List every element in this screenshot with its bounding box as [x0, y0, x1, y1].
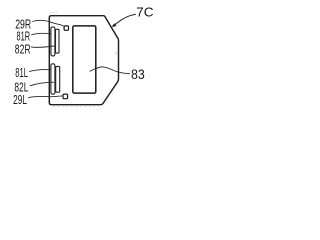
sound hole 29L (small square) [63, 94, 68, 99]
leader line 29R [32, 20, 63, 26]
svg-text:7C: 7C [136, 5, 153, 20]
scan artifact dotted line above body [50, 12, 59, 14]
connector 81R/82R back plate [56, 29, 60, 53]
svg-text:83: 83 [131, 67, 145, 82]
svg-text:29L: 29L [13, 92, 27, 107]
svg-text:81L: 81L [15, 65, 28, 80]
scan artifact speck [115, 53, 116, 54]
connector 81L/82L back plate [56, 66, 60, 92]
arrowhead 7C [112, 23, 117, 27]
leader line 81R [31, 33, 51, 35]
controller body 7C outline [49, 16, 118, 105]
leader line 83 [90, 67, 130, 74]
connector 81L/82L outer housing [51, 64, 55, 94]
battery box 83 (large inner rectangle) [73, 26, 96, 93]
connector 81R/82R outer housing [51, 27, 55, 56]
arrow 7C [113, 14, 136, 26]
scan artifact dotted line below bottom edge [53, 105, 99, 107]
leader line 81L [29, 70, 51, 72]
leader line 29L [28, 96, 62, 98]
svg-text:82R: 82R [15, 42, 31, 57]
leader line 82R [31, 46, 55, 47]
sound hole 29R (small square) [64, 26, 68, 30]
leader line 82L [30, 82, 54, 86]
